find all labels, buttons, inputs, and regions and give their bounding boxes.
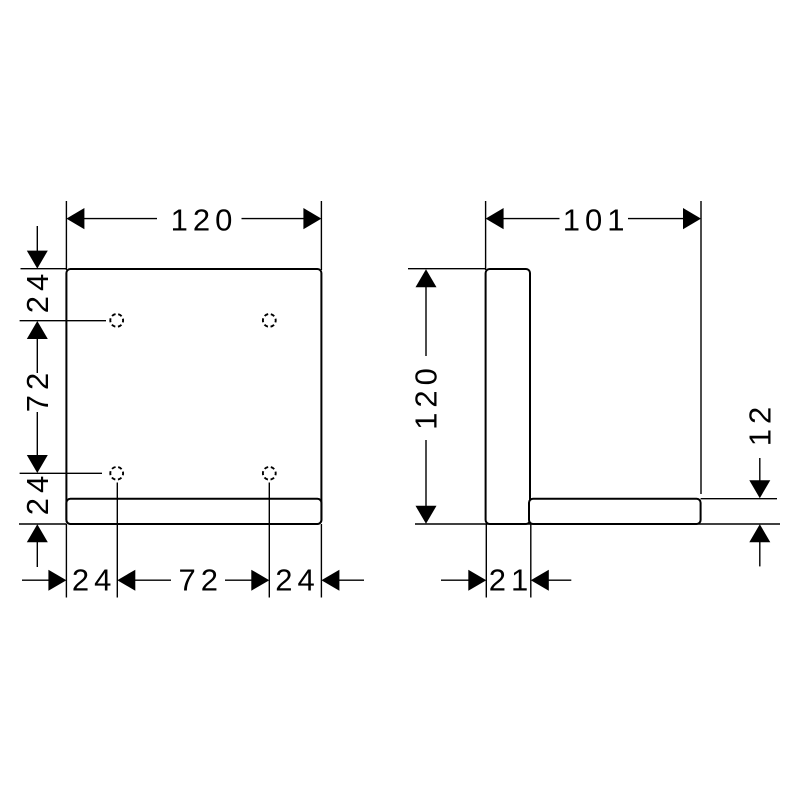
baseline: long bottom line through both ticks [415, 523, 780, 525]
hole top-left (dashed circle) [110, 314, 123, 327]
svg-text:72: 72 [20, 368, 55, 412]
hole top-right (dashed circle) [263, 314, 276, 327]
dim 21: left arrow and outside line [531, 570, 549, 591]
hole bottom-right (dashed circle) [263, 467, 276, 480]
svg-text:24: 24 [20, 471, 55, 515]
svg-text:120: 120 [409, 363, 444, 430]
tick at upper hole row level [20, 320, 106, 322]
tick at lower hole row level [20, 472, 102, 474]
dim 21: outside line and right arrow [441, 579, 469, 581]
bottom dim 72: right line segment [225, 579, 252, 581]
dim 120 top: line segments [84, 218, 157, 220]
dim 101: line segments [503, 218, 559, 220]
bottom dim 72: left line segment [135, 579, 171, 581]
side view: horizontal bar profile [529, 499, 701, 524]
hole bottom-left (dashed circle) [110, 467, 123, 480]
bottom dim: extension line at right hole column [268, 483, 270, 598]
left dim 72: upper line segment [36, 339, 38, 374]
svg-text:72: 72 [178, 563, 222, 598]
dim 120 side: lower line segment [425, 440, 427, 507]
left dim chain: bottom up arrow and segment [27, 524, 48, 542]
dim 101: right arrow [683, 208, 701, 229]
dim 120 top: left extension line [65, 201, 67, 270]
svg-text:101: 101 [563, 203, 630, 238]
dim 12: upper line segment and down arrow [759, 458, 761, 482]
dim 21: right extension line below part [530, 524, 532, 598]
dim 21: left extension line below part [485, 524, 487, 598]
tick at bar bottom level [19, 523, 66, 525]
plate front view outline [66, 269, 321, 524]
dim 120 top: right extension line [320, 201, 322, 270]
side view: vertical plate profile [486, 269, 530, 524]
svg-text:12: 12 [742, 402, 777, 446]
dim 101: left extension line [485, 201, 487, 270]
svg-text:120: 120 [171, 203, 238, 238]
bottom dim 72: right arrow [251, 570, 269, 591]
svg-text:21: 21 [489, 563, 533, 598]
dim 120 top: left arrow [66, 208, 84, 229]
left dim 72: down arrow [27, 455, 48, 473]
dim 12: tick at bar top level [701, 498, 777, 500]
dim 120 side: up arrow [416, 269, 437, 287]
left dim chain: top segment and down arrow [36, 226, 38, 252]
left dim 72: lower line segment [36, 412, 38, 456]
shelf bar front view outline [66, 499, 321, 524]
tick at plate top level [21, 268, 67, 270]
bottom dim 72: left arrow [117, 570, 135, 591]
dim 12: up arrow and lower line segment [749, 524, 770, 542]
dim 101: left arrow [486, 208, 504, 229]
dim 120 top: right arrow [303, 208, 321, 229]
svg-text:24: 24 [72, 563, 116, 598]
dim 120 side: down arrow [416, 506, 437, 524]
bottom dim: extension line at plate left edge [65, 524, 67, 598]
svg-text:24: 24 [275, 563, 319, 598]
bottom dim: extension line at plate right edge [320, 524, 322, 598]
svg-text:24: 24 [20, 269, 55, 313]
left dim 72: up arrow [27, 321, 48, 339]
bottom dim 24 left: outside line and right arrow [22, 579, 49, 581]
dim 101: right extension line [700, 201, 702, 494]
bottom dim: extension line at left hole column [116, 483, 118, 598]
bottom dim 24 right: left arrow and outside line [321, 570, 339, 591]
dim 120 side: tick at top [408, 268, 485, 270]
dim 120 side: upper line segment [425, 287, 427, 356]
